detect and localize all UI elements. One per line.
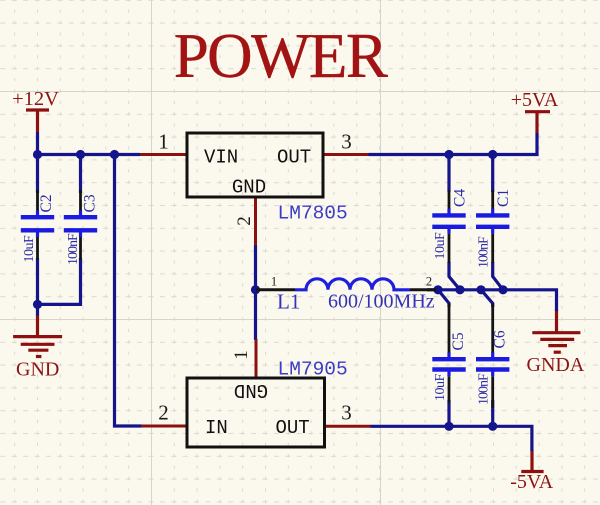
svg-text:GND: GND: [232, 177, 266, 199]
L1 pin 2 lead: [410, 288, 436, 291]
capacitor C2: [21, 190, 55, 263]
svg-text:600/100MHz: 600/100MHz: [328, 291, 435, 313]
wire top rail to VIN: [36, 153, 140, 156]
svg-text:C6: C6: [492, 330, 509, 348]
junction top rail C2: [33, 150, 42, 159]
svg-text:-5VA: -5VA: [510, 471, 554, 493]
regulator LM7805 body: [187, 133, 323, 197]
svg-text:C5: C5: [450, 332, 467, 350]
wire L1 pin1 node to 7905 pin1: [254, 290, 257, 340]
power port -5VA: [521, 450, 543, 471]
svg-text:10uF: 10uF: [22, 235, 37, 263]
junction -5VA rail C5: [444, 422, 453, 431]
regulator LM7905 pins: [142, 339, 371, 426]
wire C1 bottom diagonal: [493, 262, 503, 290]
wire C2 bottom to GND junction: [36, 258, 39, 306]
ground GNDA: [532, 310, 580, 352]
wires (net): [36, 132, 557, 451]
pin 3 OUT: [323, 153, 369, 156]
pin 1 VIN: [140, 153, 187, 156]
svg-text:+5VA: +5VA: [511, 89, 559, 111]
capacitor C3: [64, 190, 99, 265]
wire 7805 OUT to +5VA corner: [369, 133, 538, 155]
svg-text:10uF: 10uF: [433, 232, 448, 260]
svg-text:1: 1: [231, 350, 252, 360]
pin 3 OUT (7905): [325, 425, 371, 428]
svg-text:C4: C4: [452, 189, 469, 207]
pin 2 IN: [142, 425, 188, 428]
svg-text:GNDA: GNDA: [527, 354, 585, 376]
svg-text:1: 1: [158, 130, 169, 154]
wire C3 bottom corner to GND junction: [36, 258, 81, 304]
svg-text:3: 3: [341, 130, 352, 154]
wire C4 bottom diagonal: [449, 262, 460, 290]
junction top rail C3: [76, 150, 85, 159]
svg-text:1: 1: [271, 275, 277, 289]
junction +5VA rail C4: [444, 150, 453, 159]
wire C6 bottom lead: [491, 400, 494, 426]
svg-text:L1: L1: [277, 290, 300, 314]
wire left drop to 7905 IN: [115, 155, 142, 427]
junction +5VA rail C1: [488, 150, 497, 159]
wire C6 top diagonal: [481, 290, 493, 307]
wire L1 row to GNDA corner: [427, 290, 557, 311]
svg-text:C3: C3: [82, 194, 99, 212]
junction L1 row a: [433, 285, 442, 294]
svg-text:10uF: 10uF: [433, 374, 448, 402]
wire C5 bottom lead: [447, 400, 450, 426]
capacitor C6: [476, 303, 509, 408]
wire +12V stem: [36, 132, 39, 156]
svg-text:IN: IN: [205, 417, 228, 439]
inductor L1: [256, 275, 436, 314]
capacitor C5: [432, 303, 467, 403]
svg-text:2: 2: [158, 401, 169, 425]
svg-text:C1: C1: [495, 189, 512, 207]
wire C1 top lead: [491, 155, 494, 193]
power port +12V: [26, 110, 49, 132]
regulator U? LM7805 pins: [140, 155, 369, 246]
wire 7905 OUT to -5VA corner: [371, 426, 532, 451]
wire GND stem: [36, 304, 39, 315]
L1 pin 1 lead: [256, 288, 295, 291]
junction L1 pin1 node: [251, 285, 260, 294]
svg-text:2: 2: [426, 275, 432, 289]
power port +5VA: [525, 112, 550, 134]
svg-text:+12V: +12V: [12, 88, 59, 110]
junction top rail left drop: [110, 150, 119, 159]
ground GND: [13, 315, 62, 357]
svg-text:100nF: 100nF: [66, 233, 81, 265]
wire 7805 GND to L1: [254, 245, 257, 291]
pin 2 GND: [254, 197, 257, 246]
svg-text:2: 2: [234, 216, 255, 226]
svg-text:LM7905: LM7905: [278, 359, 348, 381]
capacitor C4: [432, 189, 468, 263]
junction L1 row b: [455, 285, 464, 294]
capacitor C1: [476, 189, 512, 268]
L1 coil: [295, 279, 410, 290]
svg-text:100nF: 100nF: [477, 236, 492, 268]
junction L1 row c: [476, 285, 485, 294]
svg-text:POWER: POWER: [174, 21, 388, 91]
pin 1 GND (7905): [255, 339, 258, 378]
junction -5VA rail C6: [488, 422, 497, 431]
svg-text:GND: GND: [16, 359, 59, 381]
wire C4 top lead: [447, 155, 450, 193]
wire C3 top lead: [79, 155, 82, 194]
wire C2 top lead: [36, 155, 39, 194]
svg-text:OUT: OUT: [276, 417, 310, 439]
svg-text:OUT: OUT: [277, 147, 311, 169]
junction GND node: [33, 300, 42, 309]
junction L1 row d: [498, 285, 507, 294]
regulator LM7905 body: [187, 378, 325, 447]
svg-text:LM7805: LM7805: [278, 203, 348, 225]
svg-text:VIN: VIN: [204, 147, 238, 169]
svg-text:3: 3: [341, 401, 352, 425]
wire C5 top diagonal: [438, 290, 449, 307]
svg-text:GND: GND: [234, 379, 268, 401]
svg-text:100nF: 100nF: [477, 373, 492, 405]
svg-text:C2: C2: [38, 194, 55, 212]
